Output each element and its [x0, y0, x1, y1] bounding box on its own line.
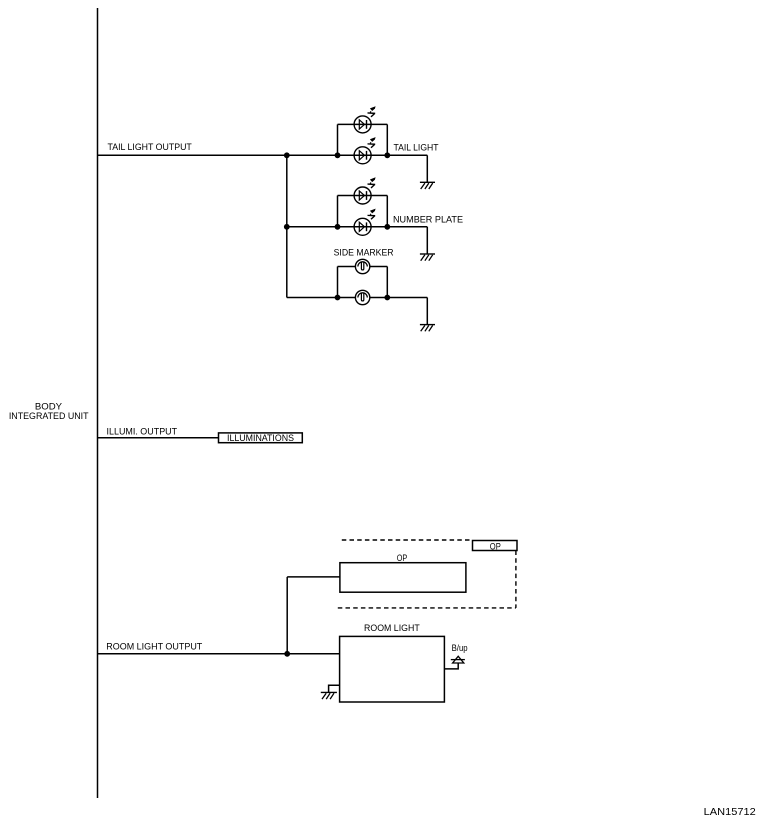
wire: side marker ground drop: [426, 298, 428, 325]
box ROOM LIGHT: [340, 636, 445, 702]
svg-text:ROOM LIGHT OUTPUT: ROOM LIGHT OUTPUT: [106, 642, 202, 653]
junction: tail right node: [384, 152, 390, 158]
wire: illumi output: [98, 437, 219, 439]
label BODY INTEGRATED UNIT: [9, 401, 89, 422]
svg-text:ILLUMINATIONS: ILLUMINATIONS: [227, 433, 294, 443]
ground side marker: [420, 325, 435, 332]
svg-text:SIDE MARKER: SIDE MARKER: [334, 247, 394, 258]
b/up power symbol: [451, 656, 465, 663]
wire: number plate ground drop: [426, 227, 428, 254]
LED lamp number plate upper: [354, 177, 376, 204]
bulb side marker upper: [355, 259, 369, 273]
junction: feeder/tail wire: [284, 152, 290, 158]
wire: number plate branch right riser: [386, 196, 388, 227]
wire: number plate main: [287, 226, 428, 228]
dashed option enclosure bottom: [338, 607, 516, 609]
wire: tail branch top: [338, 123, 388, 125]
junction: number plate left node: [335, 224, 341, 230]
junction: room light output / op feed: [284, 651, 290, 657]
ground number plate: [420, 254, 435, 261]
junction: side marker right node: [384, 295, 390, 301]
svg-text:INTEGRATED UNIT: INTEGRATED UNIT: [9, 411, 89, 422]
box OP unit: [340, 563, 466, 593]
wire: side marker branch right riser: [386, 267, 388, 298]
svg-text:OP: OP: [397, 553, 408, 563]
wire: tail light output main: [98, 154, 428, 156]
svg-text:TAIL LIGHT OUTPUT: TAIL LIGHT OUTPUT: [108, 142, 192, 153]
bulb side marker lower: [355, 290, 369, 304]
wire: op feed horizontal: [287, 576, 340, 578]
junction: side marker left node: [335, 295, 341, 301]
wire: b/up stub: [444, 663, 458, 669]
LED lamp number plate lower: [354, 209, 376, 236]
body integrated unit bus line: [97, 8, 99, 798]
ground tail light: [420, 182, 435, 189]
wire: side marker main: [287, 297, 428, 299]
wire: number plate branch left riser: [337, 196, 339, 227]
box ILLUMINATIONS: [219, 433, 303, 443]
wire: number plate branch top: [338, 195, 388, 197]
wire: tail branch left riser: [337, 124, 339, 155]
dashed option enclosure top: [342, 539, 473, 541]
svg-text:OP: OP: [490, 541, 501, 551]
junction: number plate right node: [384, 224, 390, 230]
dashed option enclosure right: [515, 551, 517, 608]
LED lamp tail light lower: [354, 137, 376, 164]
svg-text:TAIL LIGHT: TAIL LIGHT: [394, 143, 439, 154]
ground room light: [321, 692, 337, 699]
wire: op feed riser: [286, 577, 288, 654]
svg-text:ILLUMI. OUTPUT: ILLUMI. OUTPUT: [107, 426, 178, 437]
svg-text:ROOM LIGHT: ROOM LIGHT: [364, 623, 420, 634]
junction: feeder/number plate: [284, 224, 290, 230]
LED lamp tail light upper: [354, 106, 376, 133]
wire: feeder vertical: [286, 155, 288, 297]
wire: room light output: [98, 653, 340, 655]
wire: side marker branch top: [338, 266, 388, 268]
junction: tail left node: [335, 152, 341, 158]
svg-text:B/up: B/up: [452, 643, 468, 653]
svg-text:NUMBER PLATE: NUMBER PLATE: [393, 214, 463, 225]
wire: tail branch right riser: [386, 124, 388, 155]
wire: side marker branch left riser: [337, 267, 339, 298]
wire: room light ground stub: [329, 685, 340, 692]
wire: tail ground drop: [426, 155, 428, 182]
box OP connector: [473, 541, 518, 551]
svg-text:LAN15712: LAN15712: [704, 806, 756, 818]
